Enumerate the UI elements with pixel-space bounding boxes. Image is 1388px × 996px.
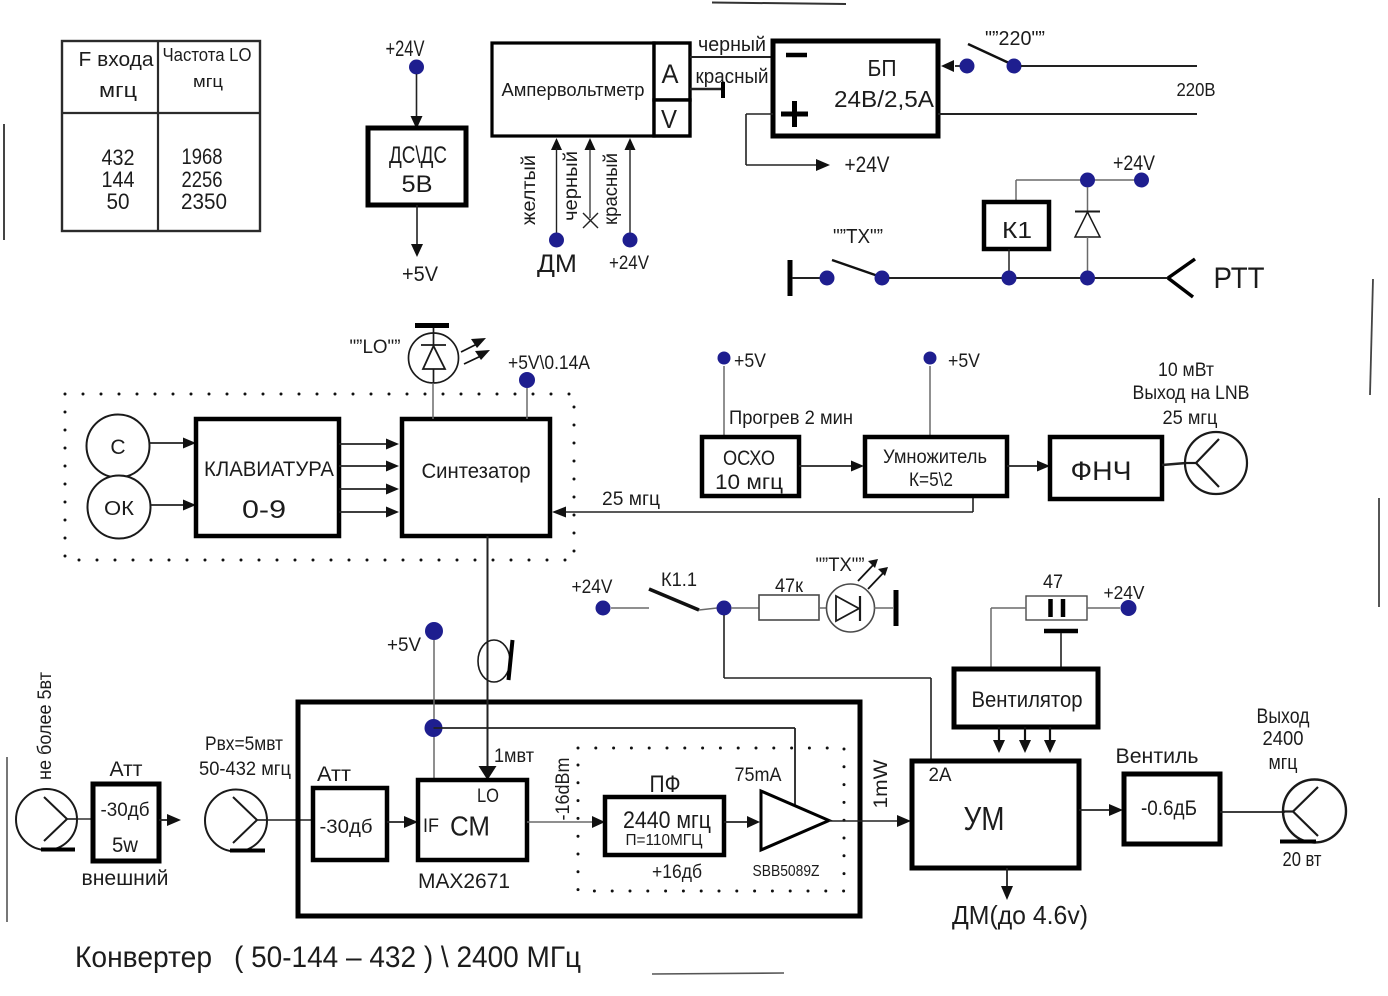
- svg-text:75mA: 75mA: [735, 765, 782, 786]
- svg-text:Синтезатор: Синтезатор: [422, 460, 531, 483]
- oscillator OCXO 10 MHz: [702, 437, 799, 496]
- svg-text:П=110МГЦ: П=110МГЦ: [626, 832, 703, 849]
- svg-text:+16дб: +16дб: [652, 862, 702, 883]
- svg-text:Выход на LNB: Выход на LNB: [1133, 383, 1250, 404]
- converter main box: [298, 702, 860, 916]
- wire input to converter: [267, 819, 313, 821]
- wire красный stub terminal: [690, 66, 769, 98]
- filter LPF: [1050, 437, 1162, 499]
- wire PTT line: [889, 277, 1168, 279]
- svg-text:0-9: 0-9: [242, 496, 286, 524]
- svg-text:47к: 47к: [775, 576, 804, 597]
- connector LNB output: [1162, 432, 1247, 494]
- node +5V (mixer): [387, 622, 443, 780]
- wire OCXO to multiplier: [799, 461, 864, 472]
- svg-text:Вентилятор: Вентилятор: [972, 687, 1083, 712]
- svg-text:внешний: внешний: [82, 867, 169, 890]
- multiplier K=5/2: [865, 437, 1007, 496]
- svg-text:Прогрев 2 мин: Прогрев 2 мин: [729, 408, 853, 429]
- stray mark right lower: [1378, 498, 1380, 607]
- svg-text:F входа: F входа: [79, 49, 155, 71]
- wire K1 coil to PTT line: [1008, 249, 1010, 278]
- node +5V (multiplier): [924, 351, 981, 437]
- node +24V dot (relay): [1113, 152, 1155, 188]
- minus terminal: [786, 53, 807, 58]
- svg-text:V: V: [661, 104, 678, 134]
- fan airflow arrow 1: [993, 727, 1005, 753]
- wire red (+24V sense): [625, 138, 636, 233]
- connector RF output: [1280, 780, 1346, 843]
- attenuator external Att 5w: [77, 758, 169, 890]
- wire DC/DC to +5V with arrow: [411, 205, 423, 257]
- svg-text:Выход: Выход: [1257, 705, 1310, 728]
- wire PA to DM arrow: [952, 868, 1088, 930]
- svg-text:5w: 5w: [112, 834, 139, 857]
- svg-text:черный: черный: [698, 34, 766, 56]
- amplifier SBB5089Z: [735, 765, 830, 880]
- wire relay feed +24V: [1016, 180, 1141, 202]
- connector input 2: [205, 790, 267, 852]
- stray mark left upper: [3, 124, 5, 240]
- node junction diode-PTT: [1080, 271, 1095, 286]
- meter ampervoltmeter: [492, 43, 654, 136]
- svg-text:мгц: мгц: [1269, 752, 1298, 774]
- svg-text:10 мВт: 10 мВт: [1158, 360, 1214, 381]
- svg-text:Ампервольтметр: Ампервольтметр: [502, 80, 645, 100]
- svg-text:25 мгц: 25 мгц: [602, 489, 660, 510]
- node junction (diode cathode): [1080, 173, 1095, 188]
- svg-text:+5V\0.14A: +5V\0.14A: [508, 353, 590, 374]
- resistor 47k: [731, 576, 819, 620]
- label Pвх: [199, 734, 291, 780]
- svg-text:24В/2,5А: 24В/2,5А: [834, 86, 935, 112]
- svg-text:К1.1: К1.1: [661, 570, 697, 591]
- title: [75, 941, 581, 974]
- dotted enclosure (synthesizer unit): [65, 394, 574, 560]
- svg-text:LO: LO: [477, 786, 499, 807]
- svg-text:мгц: мгц: [193, 72, 223, 91]
- svg-text:A: A: [662, 59, 679, 89]
- svg-text:IF: IF: [423, 816, 439, 837]
- svg-text:+5V: +5V: [948, 351, 980, 372]
- capacitor plate to fan: [1044, 631, 1078, 669]
- balun bead on LO wire: [478, 640, 513, 682]
- wire att to mixer: [387, 816, 418, 828]
- svg-text:1968: 1968: [182, 144, 223, 169]
- wire amp output to PA: [829, 815, 911, 827]
- svg-text:С: С: [110, 436, 125, 459]
- keyboard block: [196, 419, 339, 536]
- svg-text:красный: красный: [601, 153, 622, 225]
- wire multiplier to LPF: [1007, 461, 1050, 472]
- wire attenuator out arrow: [159, 814, 181, 826]
- fan Вентилятор: [954, 669, 1098, 727]
- node +24V (K1.1 feed): [572, 577, 650, 616]
- stray mark right upper: [1370, 279, 1373, 395]
- svg-text:ФНЧ: ФНЧ: [1071, 456, 1132, 486]
- svg-text:"”TX"”: "”TX"”: [833, 226, 883, 248]
- svg-text:220В: 220В: [1177, 80, 1216, 100]
- wire OK to keyboard: [151, 500, 196, 511]
- switch K1.1: [649, 570, 717, 610]
- switch "TX" (PTT): [820, 226, 890, 286]
- svg-text:+5V: +5V: [734, 351, 766, 372]
- svg-text:мгц: мгц: [99, 80, 137, 102]
- node +24V dot (meter): [609, 233, 649, 275]
- svg-text:SBB5089Z: SBB5089Z: [753, 863, 820, 880]
- svg-text:5В: 5В: [402, 171, 433, 198]
- power supply BP 24V/2.5A: [773, 41, 938, 136]
- wire keyboard to synth 3: [339, 484, 399, 495]
- wire C to keyboard: [150, 438, 196, 449]
- label "TX" with light arrows: [816, 555, 889, 589]
- svg-text:ОСХО: ОСХО: [723, 447, 775, 470]
- svg-text:К=5\2: К=5\2: [909, 470, 953, 491]
- svg-text:красный: красный: [696, 66, 769, 88]
- svg-text:-30дб: -30дб: [101, 800, 150, 821]
- svg-text:КЛАВИАТУРА: КЛАВИАТУРА: [204, 458, 334, 481]
- node +5V\0.14A: [508, 353, 590, 419]
- button C: [87, 415, 150, 478]
- attenuator Att -30дб (internal): [313, 763, 387, 860]
- stray mark top: [712, 3, 846, 5]
- svg-text:25 мгц: 25 мгц: [1163, 408, 1218, 429]
- svg-text:ПФ: ПФ: [650, 771, 681, 798]
- relay K1: [984, 202, 1049, 249]
- svg-text:Вентиль: Вентиль: [1116, 745, 1199, 768]
- terminal A: [654, 43, 690, 100]
- svg-text:Конвертер: Конвертер: [75, 941, 212, 974]
- svg-text:2440 мгц: 2440 мгц: [623, 807, 711, 834]
- wire 220 line bottom: [938, 113, 1197, 115]
- svg-text:Рвх=5мвт: Рвх=5мвт: [205, 734, 283, 755]
- fan airflow arrow 2: [1019, 727, 1031, 753]
- wire mixer to BPF: [527, 816, 605, 828]
- PTT ground terminal: [790, 260, 820, 296]
- svg-text:+24V: +24V: [609, 253, 649, 274]
- svg-text:+24V: +24V: [572, 577, 613, 598]
- svg-text:желтый: желтый: [519, 155, 540, 225]
- svg-text:ДМ(до 4.6v): ДМ(до 4.6v): [952, 900, 1088, 930]
- svg-text:Частота LO: Частота LO: [163, 45, 252, 65]
- terminal V: [654, 100, 690, 136]
- wire PSU plus to +24V arrow: [746, 114, 830, 171]
- svg-text:ОК: ОК: [104, 498, 134, 520]
- converter DC/DC 5V: [368, 128, 466, 205]
- node +24V (fan): [1087, 583, 1145, 616]
- node junction +5V inside converter: [425, 719, 796, 806]
- svg-text:черный: черный: [561, 151, 582, 221]
- svg-text:ДС\ДС: ДС\ДС: [389, 142, 447, 169]
- frequency table: [62, 41, 260, 231]
- wire keyboard to synth 1: [339, 439, 399, 450]
- label output 2400: [1257, 705, 1322, 871]
- switch "220": [941, 28, 1045, 74]
- LED "LO" indicator: [409, 326, 491, 384]
- button OK: [88, 476, 151, 539]
- svg-text:1mW: 1mW: [871, 759, 892, 808]
- svg-text:+24V: +24V: [1104, 583, 1145, 603]
- wire isolator to output connector: [1220, 811, 1285, 813]
- capacitor 47: [1026, 572, 1087, 620]
- fan airflow arrow 3: [1044, 727, 1056, 753]
- svg-text:MAX2671: MAX2671: [418, 870, 510, 893]
- svg-text:47: 47: [1043, 572, 1063, 593]
- svg-text:2400: 2400: [1263, 728, 1304, 750]
- svg-text:( 50-144 – 432 ) \ 2400 МГц: ( 50-144 – 432 ) \ 2400 МГц: [234, 941, 581, 974]
- node junction K1.1: [717, 601, 732, 616]
- svg-text:"”LO"”: "”LO"”: [350, 337, 401, 358]
- svg-text:ДМ: ДМ: [537, 250, 577, 278]
- svg-text:-16dBm: -16dBm: [553, 758, 574, 821]
- svg-text:2350: 2350: [181, 189, 227, 214]
- svg-text:"”TX"”: "”TX"”: [816, 555, 865, 576]
- svg-text:СМ: СМ: [450, 811, 490, 842]
- wire synth LO down to mixer: [479, 536, 497, 780]
- node +24V (DC/DC input): [386, 36, 425, 75]
- filter BPF 2440: [605, 771, 724, 883]
- wire keyboard to synth 2: [339, 461, 399, 472]
- wire keyboard to synth 4: [339, 507, 399, 518]
- wire capacitor to fan left: [991, 608, 1026, 669]
- svg-text:не более 5вт: не более 5вт: [35, 672, 56, 780]
- wire 25 MHz reference into synth: [552, 489, 973, 518]
- svg-text:Умножитель: Умножитель: [883, 447, 987, 468]
- svg-text:+5V: +5V: [387, 635, 421, 656]
- isolator Вентиль -0.6дБ: [1116, 745, 1221, 844]
- node DM dot: [537, 233, 577, 279]
- wire +24V to DC/DC with arrow: [411, 74, 423, 129]
- power amplifier UM: [912, 761, 1079, 868]
- wire LED to synth: [432, 383, 434, 419]
- svg-text:БП: БП: [868, 55, 897, 81]
- plus terminal: [781, 101, 808, 127]
- svg-text:20 вт: 20 вт: [1283, 849, 1322, 871]
- wire BPF to amp: [724, 816, 760, 828]
- wire черный A to PSU minus: [690, 34, 773, 57]
- wire yellow (DM sense): [551, 138, 562, 233]
- svg-text:УМ: УМ: [964, 800, 1005, 837]
- node +5V (OCXO): [718, 351, 767, 437]
- LED "TX" indicator: [819, 584, 896, 632]
- label LNB output: [1133, 360, 1250, 429]
- dotted enclosure (filter-amp): [578, 748, 844, 891]
- svg-text:50-432 мгц: 50-432 мгц: [199, 759, 291, 780]
- wire black (cut): [583, 138, 598, 228]
- connector input antenna: [16, 789, 77, 850]
- svg-text:2А: 2А: [929, 765, 952, 786]
- wire K1.1 to PA (+24V 2A): [724, 615, 931, 761]
- diode D1: [1075, 187, 1100, 278]
- svg-text:"”220"”: "”220"”: [985, 28, 1045, 50]
- svg-text:-0.6дБ: -0.6дБ: [1141, 797, 1197, 820]
- svg-text:РТТ: РТТ: [1214, 262, 1265, 295]
- stray mark bottom: [652, 973, 784, 974]
- svg-text:-30дб: -30дб: [320, 817, 373, 838]
- svg-text:50: 50: [107, 189, 130, 214]
- svg-text:1мвт: 1мвт: [494, 746, 534, 767]
- synthesizer block: [402, 419, 550, 536]
- mixer CM MAX2671: [418, 780, 527, 893]
- wire 220 line top: [1021, 65, 1197, 67]
- svg-text:10 мгц: 10 мгц: [715, 471, 783, 494]
- PTT connector: [1168, 259, 1265, 297]
- svg-text:К1: К1: [1002, 217, 1032, 243]
- svg-text:Атт: Атт: [110, 758, 143, 781]
- node junction K1-PTT: [1002, 271, 1017, 286]
- svg-text:+24V: +24V: [845, 152, 890, 177]
- svg-text:+5V: +5V: [402, 263, 438, 286]
- svg-text:+24V: +24V: [1113, 152, 1155, 175]
- stray mark left lower: [6, 757, 8, 922]
- svg-text:Атт: Атт: [317, 763, 351, 786]
- svg-text:+24V: +24V: [386, 36, 425, 61]
- wire PA to isolator: [1079, 804, 1123, 816]
